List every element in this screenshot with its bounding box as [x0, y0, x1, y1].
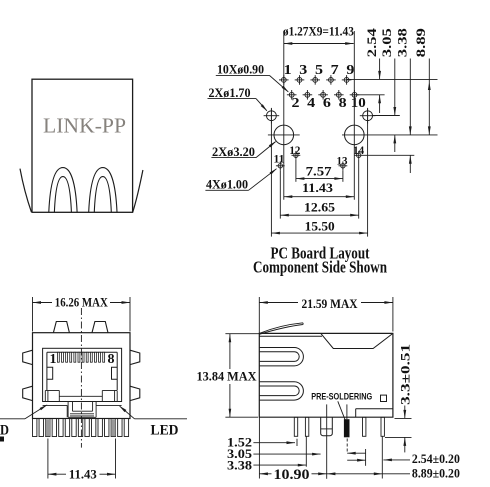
svg-text:1: 1	[50, 351, 57, 366]
connector body outline (top-left view)	[32, 79, 133, 212]
dim 3.3 text	[398, 344, 412, 405]
pin 13 hole	[339, 161, 348, 170]
pin 11 hole	[276, 161, 285, 170]
reference line row2 right	[355, 94, 385, 96]
pin F (side)	[381, 417, 384, 436]
dim 3.38 (side)	[227, 458, 306, 472]
shield whisker left (top-left view)	[20, 169, 31, 212]
svg-text:7.57: 7.57	[306, 163, 333, 178]
jack opening inner	[47, 352, 117, 390]
tick black pin	[346, 439, 348, 453]
LED pin shade left	[46, 419, 50, 436]
spring fork upper (side view)	[260, 348, 304, 366]
hole 2X dia1.70 left	[264, 108, 280, 124]
spring fork lower (side view)	[260, 382, 304, 400]
svg-text:8.89: 8.89	[413, 28, 428, 58]
svg-text:10.90: 10.90	[274, 467, 310, 483]
svg-text:ø1.27X9=11.43: ø1.27X9=11.43	[283, 24, 354, 39]
contact spring fork right (top-left view)	[89, 168, 117, 212]
dim 3.3 lines	[385, 406, 412, 453]
svg-text:12.65: 12.65	[304, 199, 336, 214]
dim 10.90	[259, 467, 326, 483]
pin 14 hole	[354, 151, 363, 160]
extension line pin11	[279, 170, 281, 218]
hole 2X dia3.20 right	[345, 125, 365, 145]
LED label left	[0, 422, 9, 438]
shelf line	[43, 401, 122, 403]
svg-text:15.50: 15.50	[305, 219, 335, 234]
dim 2.54+-0.20	[383, 452, 460, 466]
svg-text:3.3±0.51: 3.3±0.51	[398, 344, 412, 405]
foot slab left	[43, 405, 68, 417]
svg-text:6: 6	[323, 95, 331, 110]
latch ramp chamfer	[321, 333, 393, 348]
svg-text:3: 3	[299, 62, 307, 77]
dim 2.54 text	[364, 28, 379, 58]
svg-text:3.05: 3.05	[379, 28, 394, 58]
svg-text:13.84 MAX: 13.84 MAX	[197, 368, 258, 383]
svg-text:8: 8	[339, 95, 347, 110]
svg-text:5: 5	[315, 62, 323, 77]
square hole	[381, 395, 387, 401]
bottom pin comb	[33, 419, 129, 437]
pin 12 hole	[292, 151, 301, 160]
dim 21.59 MAX	[259, 296, 393, 334]
svg-text:7: 7	[331, 62, 339, 77]
svg-text:12: 12	[289, 143, 300, 157]
svg-text:13: 13	[337, 153, 348, 167]
PRE-SOLDERING leader	[338, 401, 347, 423]
dim 8.89+-0.20	[327, 466, 460, 480]
LED label right	[151, 422, 179, 438]
svg-text:4Xø1.00: 4Xø1.00	[206, 177, 248, 191]
pin A (side)	[294, 417, 297, 436]
side wing right upper	[130, 350, 140, 364]
bottom right step	[356, 409, 393, 418]
key notch right	[112, 367, 118, 379]
tick pin1 right	[296, 439, 298, 446]
hole 2X dia3.20 left	[268, 125, 300, 145]
PRE-SOLDERING label	[311, 392, 372, 403]
key notch left	[47, 367, 53, 379]
small dim arrows black pin	[347, 452, 365, 462]
extension line hole1.70 left	[270, 109, 272, 237]
tick pin2 left column	[305, 436, 307, 466]
pre-soldered pin (black)	[344, 419, 350, 437]
label 2X dia1.70	[208, 86, 268, 112]
reference line pin14 level	[363, 154, 415, 156]
shield whisker right (top-left view)	[133, 170, 143, 212]
back wall line	[59, 395, 102, 397]
extension line hole1.70 right	[367, 109, 369, 237]
svg-text:Component Side Shown: Component Side Shown	[253, 258, 387, 277]
dim 2.54 line	[378, 59, 381, 114]
svg-text:LED: LED	[151, 422, 179, 438]
svg-text:2: 2	[292, 95, 300, 110]
contact comb	[57, 352, 104, 362]
dim 8.89 line	[428, 59, 431, 135]
svg-text:11: 11	[274, 152, 285, 166]
extension line pin14	[358, 160, 360, 219]
svg-text:3.38: 3.38	[227, 458, 252, 472]
label 10X dia0.90	[216, 62, 289, 92]
dim 8.89 text	[413, 28, 428, 58]
centerline pin10 column	[353, 31, 355, 200]
svg-text:D: D	[0, 422, 9, 438]
reference line hole1.70 right level	[373, 115, 400, 117]
dim 1.27X9=11.43 line	[284, 42, 354, 45]
pin B (side)	[305, 417, 308, 436]
corner mark	[0, 437, 4, 442]
centerline pin1 column	[283, 31, 285, 200]
svg-text:10: 10	[351, 95, 366, 110]
svg-text:2Xø3.20: 2Xø3.20	[212, 145, 255, 159]
label 4X dia1.00	[205, 168, 277, 191]
svg-text:16.26 MAX: 16.26 MAX	[55, 295, 109, 310]
foot slab right	[96, 405, 122, 417]
dim 11.43 (layout)	[284, 180, 355, 198]
contact number 1	[50, 351, 57, 366]
extension shield pin centerline	[326, 404, 328, 478]
pin numbers row 2	[292, 95, 367, 110]
front centerline	[80, 308, 82, 448]
pin numbers row 1	[284, 62, 355, 77]
dim 16.26 MAX	[33, 295, 131, 332]
LED leader left	[0, 405, 48, 419]
svg-text:8.89±0.20: 8.89±0.20	[412, 466, 460, 480]
latch block right	[102, 391, 117, 402]
center tongue	[68, 402, 96, 418]
LINK-PP logo text	[43, 114, 126, 138]
side wing right lower	[130, 386, 140, 400]
dim 1.27X9=11.43 text	[283, 24, 354, 39]
svg-text:11.43: 11.43	[69, 467, 97, 482]
svg-text:2Xø1.70: 2Xø1.70	[209, 86, 251, 100]
extension line pin12	[295, 160, 297, 182]
dim 11.43 (front)	[48, 439, 116, 482]
jack opening outer	[43, 348, 122, 401]
reference line row1 right	[347, 78, 438, 80]
pin numbers 11-14	[274, 143, 365, 167]
svg-text:21.59 MAX: 21.59 MAX	[302, 296, 359, 311]
svg-text:1: 1	[284, 62, 292, 77]
label 2X dia3.20	[211, 141, 276, 159]
dim 3.05 text	[379, 28, 394, 58]
dim 1.52	[227, 435, 295, 449]
dim 12.65	[280, 199, 358, 216]
svg-text:PRE-SOLDERING: PRE-SOLDERING	[311, 392, 372, 403]
extension line pin13	[342, 170, 344, 182]
svg-text:3.38: 3.38	[395, 28, 410, 58]
svg-text:11.43: 11.43	[302, 180, 334, 195]
svg-text:4: 4	[307, 95, 315, 110]
dim 3.05 (side)	[227, 447, 321, 461]
dim 3.38 text	[395, 28, 410, 58]
dim 13.84 MAX	[197, 334, 260, 418]
svg-text:9: 9	[346, 62, 354, 77]
side wing left upper	[23, 350, 33, 364]
svg-text:8: 8	[108, 351, 115, 366]
hole 2X dia1.70 right	[360, 108, 376, 124]
shield leg	[321, 417, 333, 435]
reference line big hole level	[342, 134, 438, 136]
dim 3.05 line	[393, 59, 396, 153]
top tab right	[92, 322, 108, 333]
side body outline	[259, 333, 393, 417]
LED leader right	[119, 406, 187, 419]
top tab left	[53, 322, 69, 333]
shield fold top edge	[259, 335, 322, 337]
side wing left lower	[23, 386, 33, 400]
svg-text:2.54: 2.54	[364, 28, 379, 58]
LED pin shade right	[111, 419, 115, 436]
svg-text:LINK-PP: LINK-PP	[43, 114, 126, 138]
front body outline	[33, 333, 131, 419]
latch whisker	[259, 323, 303, 335]
contact number 8	[108, 351, 115, 366]
title Component Side Shown	[253, 258, 387, 277]
dim 3.38 line	[409, 59, 412, 174]
svg-text:10Xø0.90: 10Xø0.90	[217, 62, 264, 76]
tick 365 column	[365, 449, 367, 466]
svg-text:2.54±0.20: 2.54±0.20	[412, 452, 460, 466]
extension body left column	[258, 417, 260, 478]
extension pinF left column	[381, 437, 383, 479]
title PC Board Layout	[271, 243, 370, 262]
pins 2,4,6,8,10 holes (row 2)	[287, 90, 359, 100]
latch block left	[45, 391, 59, 402]
dim 7.57	[296, 163, 343, 180]
contact spring fork left (top-left view)	[49, 168, 77, 212]
pin E (side)	[363, 417, 366, 436]
dim 15.50	[271, 219, 367, 235]
pins 1,3,5,7,9 holes (row 1)	[279, 75, 351, 85]
svg-text:14: 14	[353, 143, 364, 157]
